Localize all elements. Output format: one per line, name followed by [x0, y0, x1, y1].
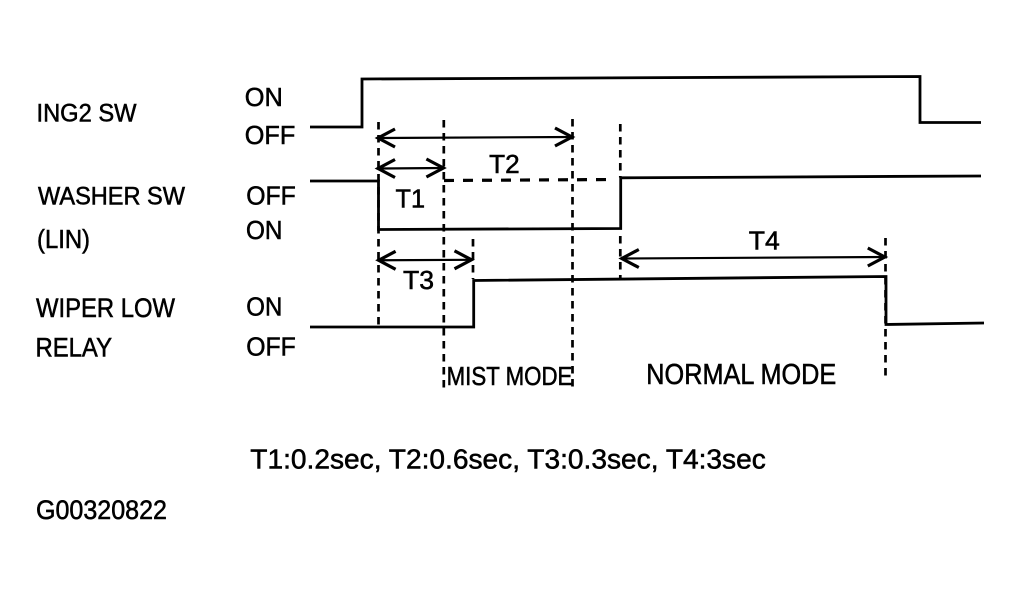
svg-text:ING2 SW: ING2 SW [37, 100, 137, 128]
svg-text:T2: T2 [489, 149, 520, 179]
signal trace ING2 SW [310, 77, 981, 128]
svg-text:NORMAL MODE: NORMAL MODE [646, 359, 836, 391]
svg-text:ON: ON [245, 82, 283, 112]
dashed vertical at T2 end x=572 [571, 119, 574, 388]
svg-text:ON: ON [246, 215, 283, 245]
dashed vertical at T4 end x=885 [884, 238, 887, 378]
dashed vertical at T1 end x=444 [442, 120, 445, 388]
svg-text:G00320822: G00320822 [36, 495, 167, 525]
dashed vertical at T3 end x=473 [472, 239, 475, 279]
svg-text:T3: T3 [403, 265, 434, 295]
svg-text:T4: T4 [749, 226, 780, 256]
svg-text:(LIN): (LIN) [37, 224, 90, 254]
svg-text:OFF: OFF [246, 181, 295, 211]
svg-text:T1: T1 [396, 183, 426, 213]
svg-text:MIST MODE: MIST MODE [447, 361, 573, 391]
svg-text:OFF: OFF [245, 120, 295, 150]
dashed vertical at washer off x=620 upper [619, 124, 622, 178]
signal trace WIPER LOW RELAY [310, 277, 984, 328]
arrow T1 span [378, 159, 443, 178]
svg-text:OFF: OFF [246, 331, 295, 361]
arrow T3 span [379, 251, 472, 269]
wire WASHER SW OFF dashed level [444, 180, 613, 181]
svg-text:T1:0.2sec, T2:0.6sec, T3:0.3se: T1:0.2sec, T2:0.6sec, T3:0.3sec, T4:3sec [250, 444, 766, 475]
svg-text:RELAY: RELAY [36, 332, 113, 362]
arrow T4 span [622, 248, 885, 268]
arrow T2 span [378, 128, 572, 147]
svg-text:WIPER LOW: WIPER LOW [36, 293, 175, 323]
svg-text:WASHER SW: WASHER SW [38, 182, 185, 210]
dashed vertical at T start x=378 [377, 122, 380, 327]
svg-text:ON: ON [246, 291, 282, 321]
signal trace WASHER SW solid [310, 176, 981, 230]
dashed vertical at washer off x=620 lower [619, 236, 622, 280]
